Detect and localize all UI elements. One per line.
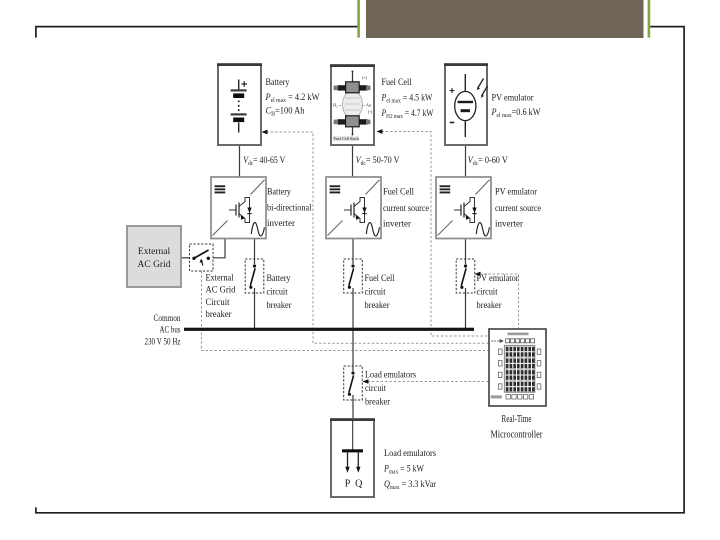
- svg-text:Load emulators: Load emulators: [365, 370, 416, 380]
- wire battery inverter to breaker: [254, 239, 256, 264]
- wire pv dc link: [465, 145, 467, 177]
- wire bus to load breaker: [352, 330, 354, 371]
- svg-text:current source: current source: [383, 204, 429, 214]
- wire pv breaker to bus: [465, 288, 467, 329]
- wire pv inverter to breaker: [465, 239, 467, 264]
- label battery breaker: [267, 273, 292, 310]
- svg-text:breaker: breaker: [365, 300, 390, 310]
- svg-text:Fuel Cell Stack: Fuel Cell Stack: [334, 136, 361, 141]
- svg-text:External: External: [206, 274, 234, 284]
- svg-text:Common: Common: [154, 314, 181, 324]
- wire battery breaker to bus: [254, 288, 256, 329]
- arrow into battery box: [262, 130, 268, 135]
- pv emulator circuit breaker S4: [456, 259, 475, 293]
- load emulators circuit breaker S5: [344, 366, 363, 400]
- svg-text:(-): (-): [368, 109, 373, 114]
- svg-text:←Air: ←Air: [362, 103, 373, 108]
- arrow into pv breaker: [475, 272, 481, 277]
- svg-text:breaker: breaker: [206, 310, 233, 320]
- arrow into fuel-cell box: [377, 129, 383, 134]
- fuel cell source box: [330, 65, 375, 145]
- fuel cell circuit breaker S3: [344, 259, 363, 293]
- svg-text:inverter: inverter: [383, 220, 412, 230]
- svg-text:Real-Time: Real-Time: [502, 414, 532, 425]
- svg-text:P: P: [345, 479, 351, 490]
- label external breaker: [206, 274, 236, 321]
- real-time microcontroller box U4: [489, 329, 546, 406]
- label battery inverter: [267, 188, 312, 230]
- battery circuit breaker S2: [245, 259, 264, 293]
- svg-text:circuit: circuit: [365, 383, 386, 393]
- svg-text:inverter: inverter: [267, 219, 296, 229]
- svg-text:PV emulator: PV emulator: [492, 94, 535, 104]
- svg-text:Load emulators: Load emulators: [384, 449, 436, 459]
- pv emulator source box: [444, 64, 488, 145]
- wire dashed external-grid-breaker control: [202, 271, 490, 351]
- svg-text:AC bus: AC bus: [160, 326, 181, 336]
- wire fuel inverter to breaker: [352, 239, 354, 264]
- svg-text:(+): (+): [362, 75, 368, 80]
- label load emulators: [383, 449, 437, 491]
- wire fuelcell dc link: [352, 145, 354, 177]
- label fuel cell inverter: [383, 188, 429, 230]
- svg-text:inverter: inverter: [495, 220, 524, 230]
- svg-text:circuit: circuit: [365, 287, 386, 297]
- label real-time microcontroller: [491, 414, 544, 441]
- wire dashed load-breaker control: [363, 381, 489, 383]
- svg-text:breaker: breaker: [267, 300, 292, 310]
- green accent line right: [648, 0, 651, 38]
- label pv source: [491, 94, 541, 120]
- wire dashed fuel-cell control: [377, 132, 489, 337]
- svg-text:circuit: circuit: [267, 287, 288, 297]
- load emulators box: [330, 419, 375, 497]
- wire load breaker to load box: [352, 395, 354, 419]
- svg-text:breaker: breaker: [365, 397, 390, 407]
- svg-text:Battery: Battery: [267, 273, 291, 283]
- battery symbol: [231, 80, 247, 133]
- svg-text:Fuel Cell: Fuel Cell: [365, 273, 395, 283]
- svg-text:AC Grid: AC Grid: [138, 260, 171, 270]
- svg-text:bi-directional: bi-directional: [267, 204, 312, 214]
- svg-text:Battery: Battery: [267, 188, 291, 198]
- svg-text:circuit: circuit: [477, 287, 498, 297]
- svg-text:Circuit: Circuit: [206, 298, 230, 308]
- pv current source symbol: [450, 74, 488, 137]
- svg-text:H₂→: H₂→: [333, 103, 342, 108]
- svg-text:AC Grid: AC Grid: [206, 286, 236, 296]
- fuel cell current source inverter box U2: [326, 177, 381, 239]
- arrow into load breaker: [363, 379, 369, 384]
- label fuel cell source: [381, 78, 434, 120]
- label pv inverter: [495, 188, 541, 230]
- svg-text:Fuel Cell: Fuel Cell: [383, 188, 414, 198]
- svg-text:230 V 50 Hz: 230 V 50 Hz: [145, 337, 181, 347]
- label pv breaker: [477, 273, 519, 310]
- battery bi-directional inverter box U1: [211, 177, 266, 239]
- wire dashed battery control: [262, 132, 489, 343]
- label battery source: [265, 78, 320, 118]
- label load breaker: [364, 370, 417, 407]
- slide frame top bar (taupe): [366, 0, 644, 38]
- label fuel cell breaker: [365, 273, 395, 310]
- wire battery dc link: [239, 145, 241, 177]
- svg-text:PV emulator: PV emulator: [477, 273, 519, 283]
- svg-text:External: External: [138, 247, 171, 257]
- svg-text:PV emulator: PV emulator: [495, 188, 538, 198]
- fuel cell stack symbol: [333, 71, 373, 142]
- common AC bus bar: [184, 328, 474, 331]
- wire fuel breaker to bus: [352, 288, 354, 329]
- pv emulator current source inverter box U3: [436, 177, 491, 239]
- svg-text:current source: current source: [495, 204, 541, 214]
- svg-text:Fuel Cell: Fuel Cell: [382, 78, 412, 88]
- external AC grid box: [127, 226, 181, 287]
- wire dashed pv-breaker control: [475, 274, 519, 329]
- svg-text:Q: Q: [355, 479, 363, 490]
- label common AC bus: [145, 314, 181, 348]
- battery source box: [217, 64, 262, 145]
- svg-text:breaker: breaker: [477, 300, 502, 310]
- wire ext-breaker to inverter: [213, 239, 225, 258]
- svg-text:Microcontroller: Microcontroller: [491, 430, 544, 441]
- svg-text:Battery: Battery: [266, 78, 290, 88]
- wire ext-grid to breaker: [181, 257, 190, 259]
- green accent line left: [357, 0, 360, 38]
- external AC grid circuit breaker S1: [190, 244, 214, 271]
